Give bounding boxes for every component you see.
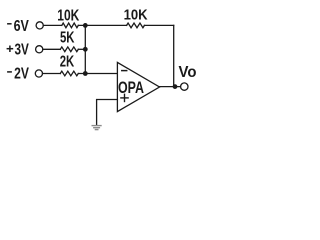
wire feedback vertical bbox=[173, 25, 175, 86]
resistor R1 10K bbox=[62, 23, 79, 28]
svg-text:6V: 6V bbox=[14, 18, 30, 35]
svg-text:10K: 10K bbox=[57, 8, 79, 25]
terminal -2V bbox=[35, 70, 42, 77]
label -2V bbox=[7, 71, 12, 73]
ground bbox=[92, 126, 101, 130]
wire bbox=[78, 73, 117, 75]
wire non-inverting input bbox=[97, 100, 118, 125]
wire bbox=[43, 24, 62, 26]
node junction output bbox=[173, 84, 178, 89]
svg-text:5K: 5K bbox=[60, 30, 75, 47]
resistor R2 5K bbox=[60, 47, 78, 52]
terminal Vo bbox=[181, 83, 188, 90]
resistor Rf 10K feedback bbox=[127, 23, 145, 28]
node junction D2 bbox=[83, 47, 88, 52]
wire bbox=[43, 73, 61, 75]
terminal +3V bbox=[36, 46, 43, 53]
wire bbox=[78, 24, 126, 26]
svg-text:2V: 2V bbox=[14, 66, 29, 83]
svg-text:Vo: Vo bbox=[179, 64, 197, 81]
node junction D1 bbox=[83, 23, 88, 28]
wire vertical bus bbox=[84, 25, 86, 73]
wire bbox=[43, 48, 61, 50]
op-amp inverting input mark bbox=[122, 70, 127, 72]
wire bbox=[78, 48, 85, 50]
resistor R3 2K bbox=[60, 71, 78, 76]
op-amp non-inverting input mark bbox=[121, 97, 128, 99]
node junction D3 bbox=[83, 71, 88, 76]
svg-text:2K: 2K bbox=[60, 54, 75, 71]
label -6V bbox=[7, 23, 12, 25]
svg-text:OPA: OPA bbox=[118, 78, 144, 97]
terminal -6V bbox=[36, 22, 43, 29]
svg-text:10K: 10K bbox=[124, 7, 148, 24]
svg-text:3V: 3V bbox=[15, 42, 30, 59]
wire op-amp output bbox=[160, 86, 181, 88]
label +3V bbox=[7, 48, 14, 50]
wire bbox=[144, 24, 173, 26]
op-amp U1 bbox=[117, 62, 159, 111]
